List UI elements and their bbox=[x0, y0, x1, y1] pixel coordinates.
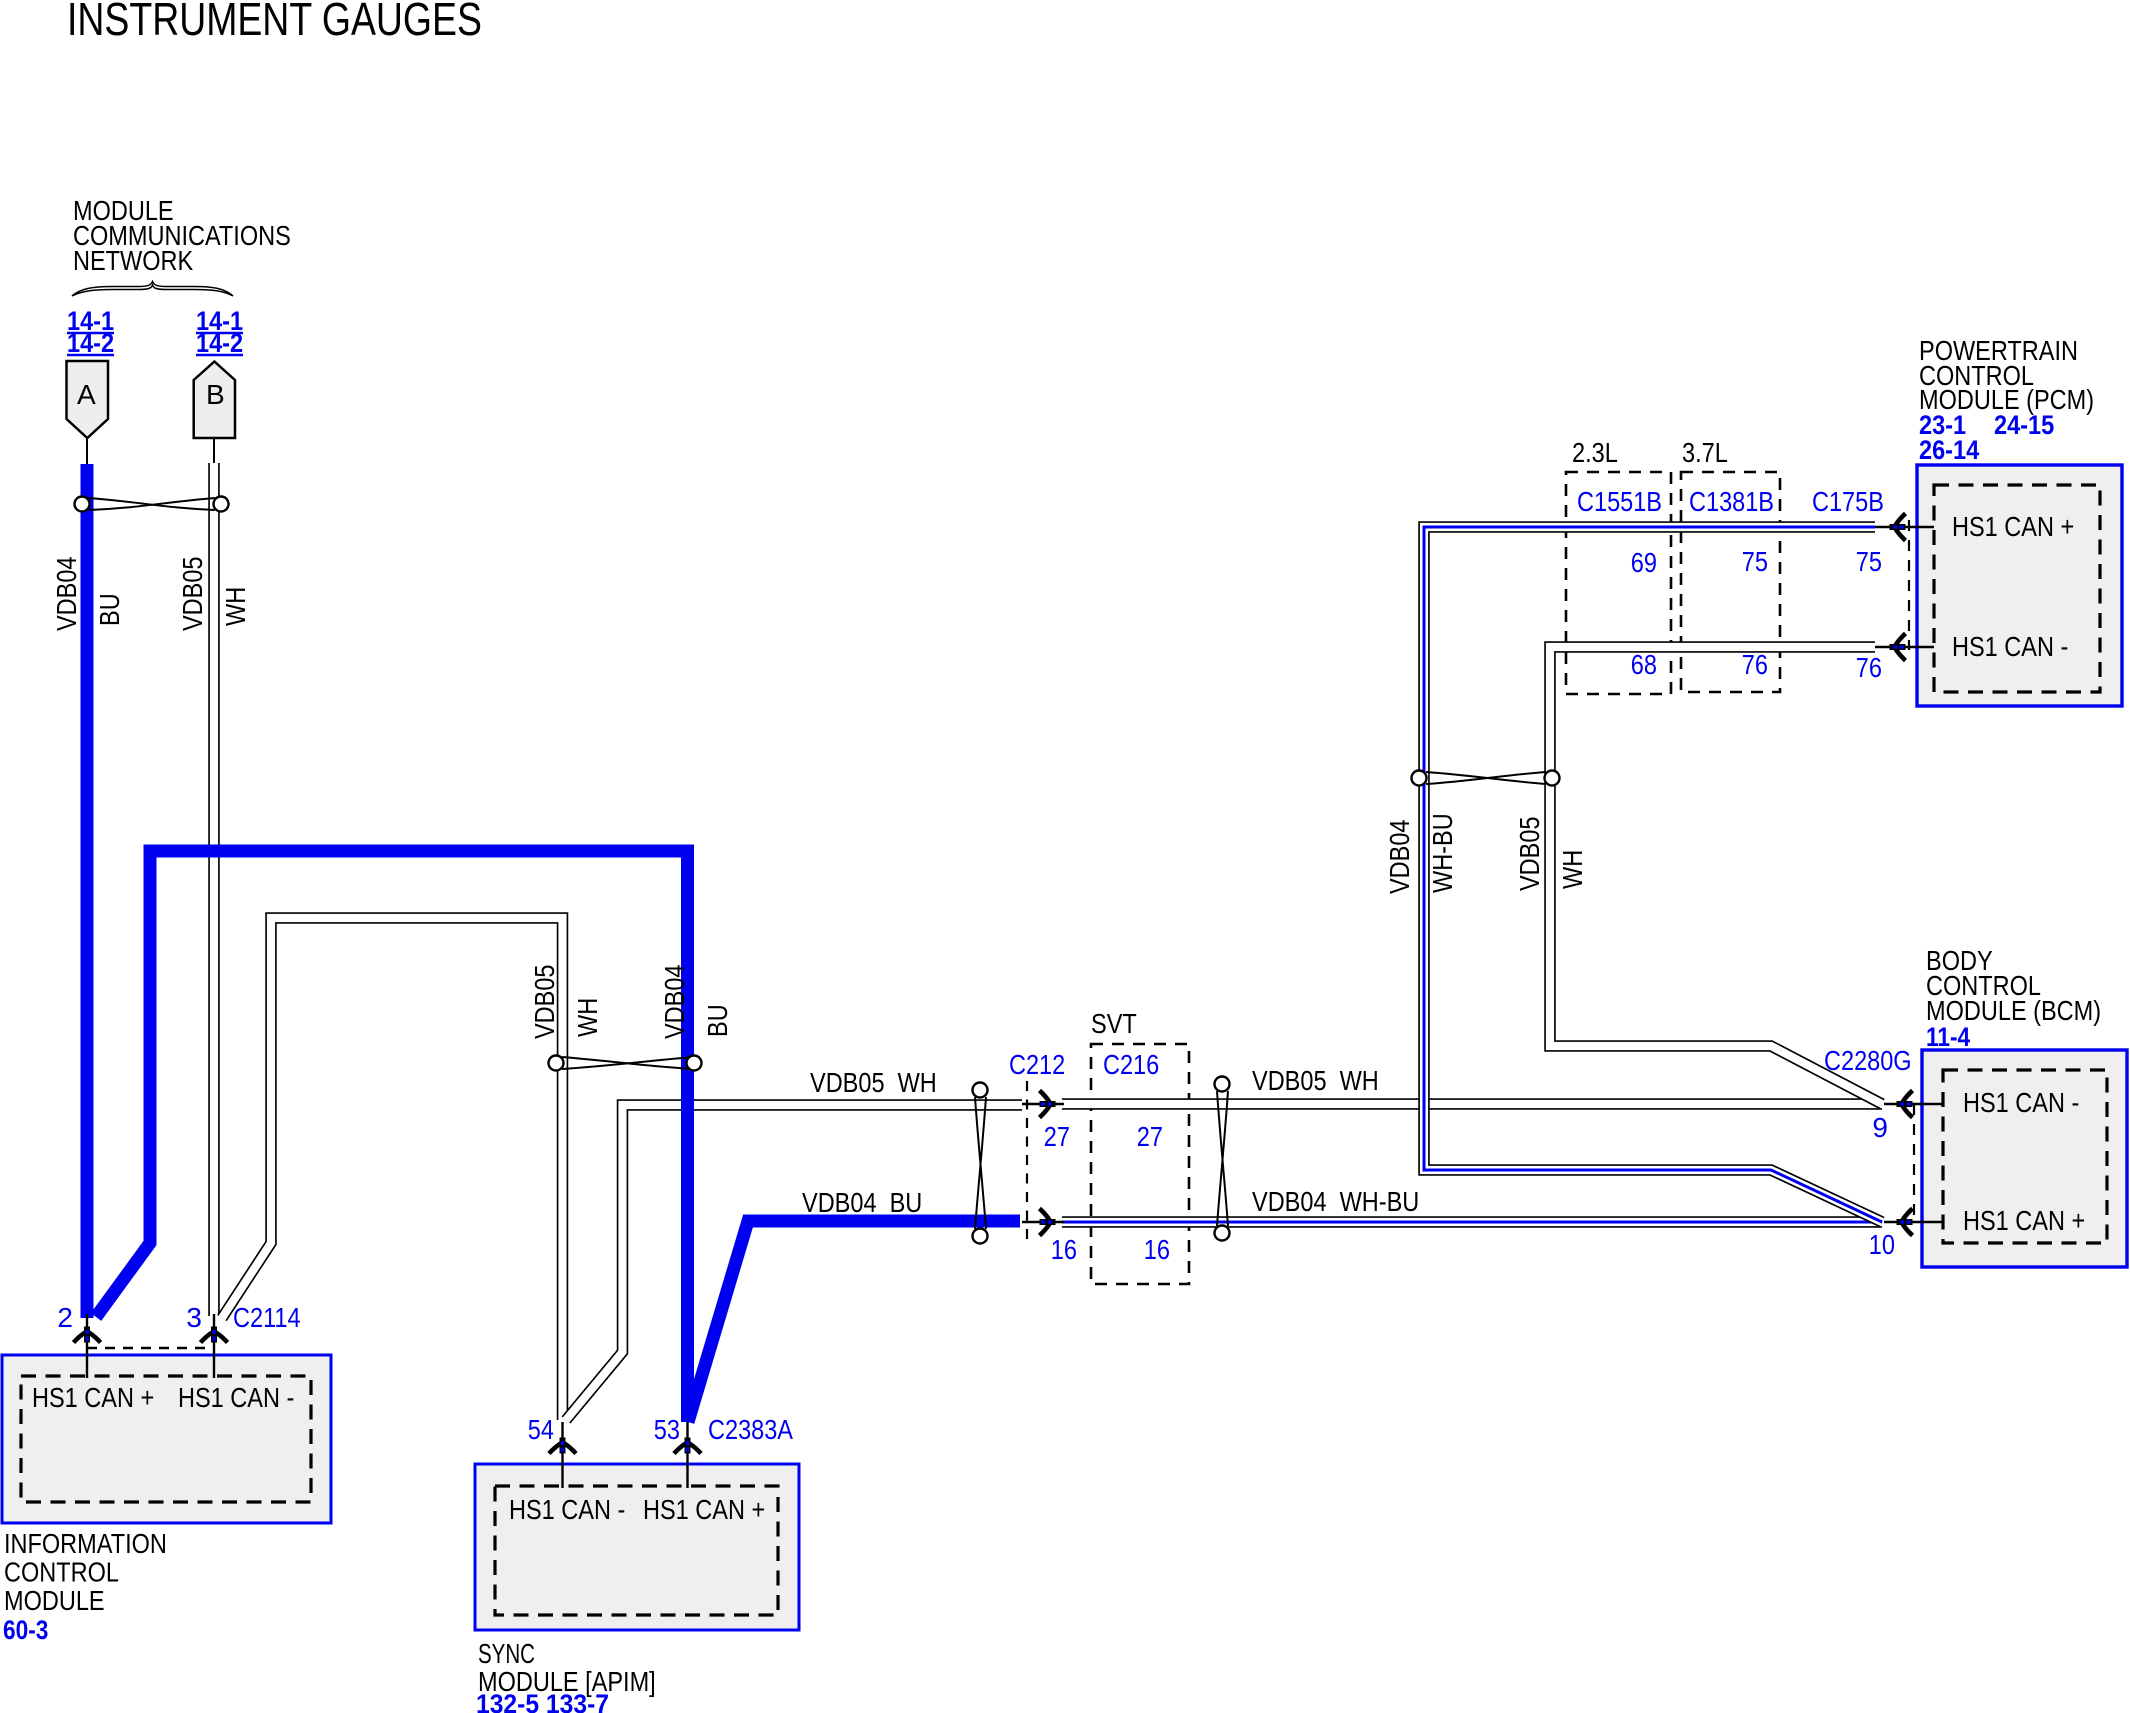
pin line pin 76 (PCM) bbox=[1875, 646, 1934, 648]
svg-text:HS1 CAN +: HS1 CAN + bbox=[32, 1382, 154, 1413]
wire VDB05 WH branch: pin 3 up, across, down to SYNC pin 54 bbox=[222, 918, 563, 1420]
svg-text:BU: BU bbox=[702, 1004, 733, 1037]
connector C2280G dashed line between pins 9 and 10 bbox=[1913, 1104, 1915, 1222]
wire stub from connector B bbox=[213, 438, 215, 463]
svg-text:HS1 CAN +: HS1 CAN + bbox=[1952, 511, 2074, 542]
connector box C1551B (2.3L) bbox=[1566, 472, 1671, 694]
label MODULE COMMUNICATIONS NETWORK bbox=[73, 195, 291, 276]
brace under MODULE COMMUNICATIONS NETWORK bbox=[72, 282, 233, 297]
svg-text:75: 75 bbox=[1856, 546, 1882, 577]
twisted-pair symbol above SYNC module bbox=[549, 1056, 702, 1071]
svg-text:27: 27 bbox=[1044, 1121, 1070, 1152]
svg-text:C212: C212 bbox=[1009, 1049, 1065, 1080]
module box: POWERTRAIN CONTROL MODULE (PCM) bbox=[1917, 465, 2122, 706]
svg-text:C216: C216 bbox=[1103, 1049, 1159, 1080]
svg-text:69: 69 bbox=[1631, 547, 1657, 578]
svg-text:WH: WH bbox=[572, 998, 603, 1037]
pin arrow pin 76 (points left) bbox=[1890, 634, 1906, 661]
svg-text:2.3L: 2.3L bbox=[1572, 437, 1618, 468]
pin arrow pin 75 (points left) bbox=[1890, 514, 1906, 541]
svg-text:C175B: C175B bbox=[1812, 486, 1884, 517]
connector B bbox=[194, 362, 235, 439]
connector box C1381B (3.7L) bbox=[1681, 472, 1780, 692]
twisted-pair symbol below PCM bbox=[1412, 771, 1560, 786]
svg-text:11-4: 11-4 bbox=[1926, 1022, 1970, 1052]
module box: INFORMATION CONTROL MODULE bbox=[2, 1355, 331, 1523]
pin line pin 27 (C212/C216) bbox=[1022, 1103, 1064, 1105]
page links 23-1 24-15 26-14 bbox=[1919, 410, 2054, 465]
connector box C216 (SVT) bbox=[1091, 1044, 1189, 1284]
svg-text:INSTRUMENT GAUGES: INSTRUMENT GAUGES bbox=[67, 0, 482, 45]
label POWERTRAIN CONTROL MODULE (PCM) bbox=[1919, 335, 2094, 415]
svg-text:3: 3 bbox=[186, 1302, 202, 1333]
svg-text:76: 76 bbox=[1856, 652, 1882, 683]
pin line pin 54 (SYNC) bbox=[561, 1422, 563, 1488]
svg-text:VDB05 WH: VDB05 WH bbox=[1252, 1065, 1379, 1096]
pin arrow pin 3 bbox=[201, 1327, 228, 1343]
wire VDB04 BU from SYNC pin 53 up to SVT C212 bbox=[688, 1221, 1020, 1422]
pin line pin 9 (BCM) bbox=[1884, 1103, 1943, 1105]
twisted-pair symbol below connectors A/B bbox=[75, 497, 229, 512]
svg-text:A: A bbox=[77, 379, 96, 410]
svg-text:WH-BU: WH-BU bbox=[1427, 813, 1458, 893]
svg-text:HS1 CAN -: HS1 CAN - bbox=[1952, 631, 2068, 662]
module box: SYNC MODULE [APIM] bbox=[475, 1464, 799, 1630]
pin line pin 10 (BCM) bbox=[1884, 1221, 1943, 1223]
svg-text:HS1 CAN -: HS1 CAN - bbox=[509, 1494, 625, 1525]
svg-text:SYNC: SYNC bbox=[478, 1638, 535, 1669]
pin line pin 75 (PCM) bbox=[1875, 526, 1934, 528]
label SYNC MODULE [APIM] bbox=[478, 1638, 656, 1697]
pin arrow pin 2 bbox=[74, 1327, 101, 1343]
connector A bbox=[67, 361, 109, 438]
pin arrow pin 53 bbox=[674, 1438, 701, 1454]
module box: BODY CONTROL MODULE (BCM) bbox=[1922, 1050, 2127, 1267]
svg-text:HS1 CAN -: HS1 CAN - bbox=[178, 1382, 294, 1413]
svg-text:B: B bbox=[206, 379, 225, 410]
svg-text:VDB04: VDB04 bbox=[1384, 820, 1415, 895]
wire VDB04 BU branch: pin 2 up, across, down to SYNC pin 53 bbox=[96, 851, 688, 1422]
svg-text:9: 9 bbox=[1872, 1112, 1888, 1143]
pin arrow pin 27 (points right) bbox=[1040, 1091, 1056, 1118]
svg-text:VDB05: VDB05 bbox=[177, 557, 208, 632]
twisted-pair symbol right of SVT connector bbox=[1215, 1077, 1230, 1241]
wire VDB04 BU from connector A down to pin 2 bbox=[81, 464, 94, 1318]
wire VDB05 WH from SVT C216 to BCM pin 9 bbox=[1062, 1098, 1882, 1110]
svg-text:VDB04: VDB04 bbox=[51, 557, 82, 632]
svg-text:MODULE: MODULE bbox=[4, 1585, 105, 1616]
label BODY CONTROL MODULE (BCM) bbox=[1926, 945, 2101, 1026]
pin line pin 3 (ICM) bbox=[213, 1314, 215, 1378]
svg-text:HS1 CAN +: HS1 CAN + bbox=[1963, 1205, 2085, 1236]
connector C212 dashed line between pins 27 and 16 bbox=[1026, 1081, 1028, 1240]
svg-text:132-5 133-7: 132-5 133-7 bbox=[476, 1689, 609, 1713]
wire VDB04 WH-BU from PCM pin 75 down and over to BCM pin 10 bbox=[1424, 527, 1882, 1222]
label INFORMATION CONTROL MODULE bbox=[4, 1528, 167, 1616]
svg-text:75: 75 bbox=[1742, 546, 1768, 577]
svg-text:C2383A: C2383A bbox=[708, 1414, 793, 1445]
svg-text:27: 27 bbox=[1137, 1121, 1163, 1152]
pin line pin 53 (SYNC) bbox=[686, 1422, 688, 1488]
svg-text:3.7L: 3.7L bbox=[1682, 437, 1728, 468]
svg-text:2: 2 bbox=[57, 1302, 73, 1333]
svg-text:VDB04: VDB04 bbox=[659, 965, 690, 1040]
svg-text:VDB05: VDB05 bbox=[1514, 817, 1545, 892]
svg-text:10: 10 bbox=[1869, 1229, 1895, 1260]
pin arrow pin 54 bbox=[549, 1438, 576, 1454]
page links 14-1 14-2 (right) bbox=[196, 306, 243, 358]
svg-text:C1551B: C1551B bbox=[1577, 486, 1662, 517]
svg-text:WH: WH bbox=[220, 587, 251, 626]
svg-text:BU: BU bbox=[94, 593, 125, 626]
wire VDB05 WH from connector B down to pin 3 bbox=[208, 463, 220, 1316]
svg-text:VDB05: VDB05 bbox=[529, 965, 560, 1040]
svg-text:53: 53 bbox=[654, 1414, 680, 1445]
svg-text:SVT: SVT bbox=[1091, 1008, 1137, 1039]
svg-text:C2280G: C2280G bbox=[1824, 1045, 1912, 1076]
svg-text:26-14: 26-14 bbox=[1919, 435, 1979, 465]
connector C175B dashed line between pins 75 and 76 bbox=[1908, 520, 1910, 650]
page links 14-1 14-2 (left) bbox=[67, 306, 114, 358]
pin line pin 2 (ICM) bbox=[86, 1314, 88, 1378]
wire VDB05 WH from PCM pin 76 down and over to BCM pin 9 bbox=[1550, 647, 1882, 1104]
svg-text:HS1 CAN -: HS1 CAN - bbox=[1963, 1087, 2079, 1118]
svg-text:VDB04 BU: VDB04 BU bbox=[802, 1187, 922, 1218]
svg-text:68: 68 bbox=[1631, 649, 1657, 680]
svg-text:WH: WH bbox=[1557, 850, 1588, 889]
svg-text:C2114: C2114 bbox=[233, 1302, 301, 1333]
svg-text:16: 16 bbox=[1144, 1234, 1170, 1265]
svg-text:HS1 CAN +: HS1 CAN + bbox=[643, 1494, 765, 1525]
pin arrow pin 9 (points left) bbox=[1897, 1091, 1913, 1118]
wire VDB04 WH-BU from SVT C216 to BCM pin 10 bbox=[1062, 1216, 1882, 1228]
svg-text:CONTROL: CONTROL bbox=[4, 1557, 119, 1588]
svg-text:NETWORK: NETWORK bbox=[73, 245, 193, 276]
svg-text:76: 76 bbox=[1742, 649, 1768, 680]
wire VDB05 WH from SYNC pin 54 up to SVT C212 bbox=[566, 1105, 1022, 1420]
wire stub from connector A bbox=[86, 438, 88, 464]
svg-text:C1381B: C1381B bbox=[1689, 486, 1774, 517]
svg-text:24-15: 24-15 bbox=[1994, 410, 2054, 440]
pin arrow pin 16 (points right) bbox=[1040, 1209, 1056, 1236]
svg-text:INFORMATION: INFORMATION bbox=[4, 1528, 167, 1559]
pin arrow pin 10 (points left) bbox=[1897, 1209, 1913, 1236]
svg-text:VDB04 WH-BU: VDB04 WH-BU bbox=[1252, 1186, 1419, 1217]
pin line pin 16 (C212/C216) bbox=[1022, 1221, 1064, 1223]
svg-text:54: 54 bbox=[528, 1414, 554, 1445]
twisted-pair symbol left of SVT connector bbox=[973, 1083, 988, 1244]
svg-text:16: 16 bbox=[1051, 1234, 1077, 1265]
connector C2114 dashed line between pins 2 and 3 bbox=[87, 1347, 214, 1350]
svg-text:VDB05 WH: VDB05 WH bbox=[810, 1067, 937, 1098]
svg-text:60-3: 60-3 bbox=[3, 1615, 48, 1645]
